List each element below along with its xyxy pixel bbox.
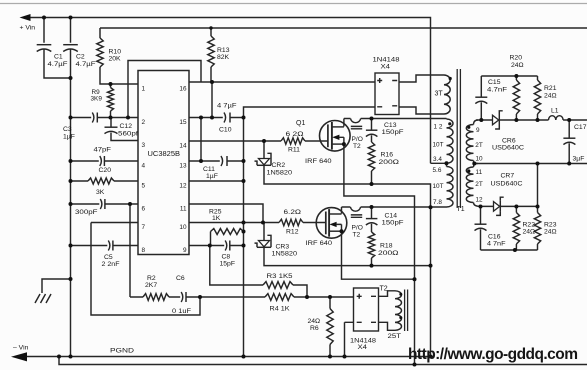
svg-text:7.8: 7.8 — [433, 199, 442, 206]
svg-text:R21: R21 — [544, 85, 557, 92]
svg-text:3µF: 3µF — [573, 156, 585, 163]
svg-text:2T: 2T — [475, 142, 483, 149]
svg-text:T2: T2 — [353, 143, 361, 150]
svg-text:CR2: CR2 — [272, 162, 286, 169]
svg-text:C15: C15 — [488, 79, 501, 86]
svg-text:10: 10 — [476, 156, 484, 163]
svg-text:C11: C11 — [203, 166, 215, 173]
svg-text:4 7µF: 4 7µF — [217, 103, 237, 110]
svg-text:R10: R10 — [109, 49, 122, 56]
svg-text:R2: R2 — [147, 275, 156, 282]
svg-text:C10: C10 — [219, 127, 232, 134]
svg-text:5: 5 — [142, 182, 146, 189]
svg-text:1µF: 1µF — [63, 134, 75, 141]
svg-text:16: 16 — [179, 85, 187, 92]
svg-text:4.7µF: 4.7µF — [76, 61, 96, 68]
svg-text:IRF 640: IRF 640 — [305, 158, 332, 165]
svg-text:L1: L1 — [551, 108, 559, 115]
svg-text:PGND: PGND — [110, 348, 134, 355]
svg-text:C17: C17 — [574, 124, 587, 131]
svg-text:150pF: 150pF — [382, 219, 404, 226]
svg-text:3.4: 3.4 — [433, 156, 442, 163]
svg-text:6 2Ω: 6 2Ω — [286, 131, 304, 138]
svg-text:14: 14 — [179, 142, 187, 149]
svg-text:200Ω: 200Ω — [379, 159, 400, 166]
svg-text:15: 15 — [179, 119, 187, 126]
svg-text:CR3: CR3 — [276, 244, 290, 251]
svg-text:3K9: 3K9 — [91, 96, 103, 103]
svg-text:6: 6 — [142, 205, 146, 212]
svg-text:4 7nF: 4 7nF — [487, 240, 506, 247]
svg-text:1 2: 1 2 — [434, 124, 443, 131]
svg-text:200Ω: 200Ω — [378, 250, 399, 257]
svg-text:C3: C3 — [63, 126, 72, 133]
svg-text:47pF: 47pF — [94, 147, 112, 154]
svg-text:C5: C5 — [104, 254, 113, 261]
svg-text:R12: R12 — [286, 229, 299, 236]
svg-text:C20: C20 — [99, 167, 112, 174]
svg-text:Q1: Q1 — [296, 120, 305, 127]
svg-text:C1: C1 — [54, 54, 63, 61]
svg-text:1K: 1K — [212, 215, 221, 222]
svg-text:3T: 3T — [435, 91, 444, 98]
svg-text:7: 7 — [142, 224, 146, 231]
svg-text:5.6: 5.6 — [433, 167, 442, 174]
svg-text:1µF: 1µF — [206, 173, 218, 180]
svg-text:24Ω: 24Ω — [511, 62, 524, 69]
svg-text:4.7nF: 4.7nF — [487, 86, 507, 93]
svg-text:X4: X4 — [381, 64, 391, 71]
svg-text:1: 1 — [142, 85, 146, 92]
svg-text:2K7: 2K7 — [145, 282, 157, 289]
svg-text:C8: C8 — [222, 254, 231, 261]
svg-text:10T: 10T — [433, 183, 444, 190]
svg-text:3: 3 — [142, 142, 146, 149]
svg-text:4: 4 — [142, 162, 146, 169]
svg-text:X4: X4 — [358, 344, 368, 351]
svg-text:4.7µF: 4.7µF — [48, 61, 68, 68]
svg-text:150pF: 150pF — [382, 129, 404, 136]
svg-text:R16: R16 — [381, 152, 394, 159]
svg-text:http://www.go-gddq.com: http://www.go-gddq.com — [408, 346, 578, 363]
svg-text:R3 1K5: R3 1K5 — [267, 273, 293, 280]
svg-text:11: 11 — [476, 169, 483, 176]
svg-text:25T: 25T — [388, 333, 402, 340]
svg-text:0 1uF: 0 1uF — [172, 308, 191, 315]
svg-text:2T: 2T — [475, 181, 483, 188]
svg-text:2 2nF: 2 2nF — [102, 261, 120, 268]
svg-text:300pF: 300pF — [75, 209, 98, 216]
svg-text:10T: 10T — [433, 141, 444, 148]
svg-text:R6: R6 — [310, 325, 319, 332]
svg-text:9: 9 — [476, 127, 480, 134]
svg-text:USD640C: USD640C — [492, 145, 524, 152]
svg-text:10: 10 — [179, 224, 187, 231]
svg-text:T2: T2 — [353, 231, 361, 238]
svg-text:20K: 20K — [109, 56, 122, 63]
svg-text:6.2Ω: 6.2Ω — [284, 209, 302, 216]
svg-text:R11: R11 — [288, 147, 300, 154]
svg-text:R4 1K: R4 1K — [270, 306, 290, 313]
svg-text:C12: C12 — [120, 123, 133, 130]
svg-text:8: 8 — [142, 247, 146, 254]
svg-text:T1: T1 — [457, 206, 465, 213]
svg-text:USD640C: USD640C — [491, 181, 523, 188]
svg-text:C2: C2 — [76, 54, 85, 61]
svg-text:– Vin: – Vin — [13, 345, 29, 352]
svg-text:560pf: 560pf — [118, 130, 138, 137]
svg-text:11: 11 — [180, 205, 187, 212]
svg-text:24Ω: 24Ω — [523, 228, 536, 235]
svg-text:R18: R18 — [380, 243, 393, 250]
svg-text:1N5820: 1N5820 — [272, 251, 298, 258]
svg-text:R20: R20 — [510, 55, 523, 62]
svg-text:24Ω: 24Ω — [308, 318, 321, 325]
svg-text:24Ω: 24Ω — [544, 228, 557, 235]
svg-text:82K: 82K — [217, 54, 230, 61]
svg-text:3K: 3K — [96, 189, 105, 196]
svg-text:12: 12 — [179, 182, 187, 189]
svg-text:C6: C6 — [176, 275, 185, 282]
svg-text:IRF 640: IRF 640 — [306, 240, 333, 247]
svg-text:CR7: CR7 — [501, 173, 515, 180]
svg-text:CR6: CR6 — [502, 138, 516, 145]
svg-text:UC3825B: UC3825B — [148, 151, 181, 158]
svg-text:+ Vin: + Vin — [20, 25, 36, 32]
svg-text:1N4148: 1N4148 — [373, 57, 400, 64]
svg-text:24Ω: 24Ω — [544, 93, 557, 100]
svg-text:T2: T2 — [380, 286, 388, 293]
svg-text:9: 9 — [183, 247, 187, 254]
svg-text:13: 13 — [179, 162, 187, 169]
svg-text:2: 2 — [142, 119, 146, 126]
svg-text:15pF: 15pF — [220, 261, 236, 268]
svg-text:1N5820: 1N5820 — [267, 170, 293, 177]
svg-text:12: 12 — [476, 197, 484, 204]
